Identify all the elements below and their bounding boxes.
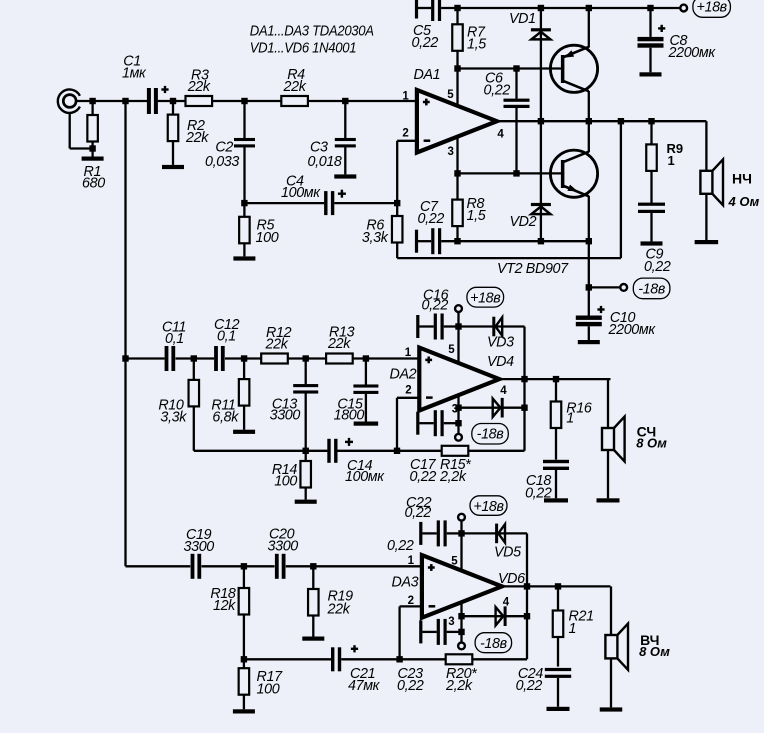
terminal +18v DA2	[457, 312, 459, 326]
svg-text:0,1: 0,1	[165, 331, 184, 347]
wire: VT1 emitter down	[588, 91, 590, 121]
capacitor C22	[419, 522, 422, 545]
node: rail junction C8	[647, 5, 653, 11]
resistor R18	[243, 566, 245, 588]
wire: R18 node to C21	[244, 658, 331, 660]
wire: VT2 emitter down	[588, 196, 590, 241]
wire: DA2 pin3 vertical	[457, 393, 459, 423]
svg-text:1: 1	[405, 347, 412, 359]
node: junction output/feedback DA3	[524, 583, 530, 589]
capacitor C3	[344, 101, 346, 138]
svg-text:0,018: 0,018	[308, 154, 342, 170]
svg-text:12k: 12k	[213, 598, 236, 614]
resistor R4	[281, 96, 308, 106]
node: junction R21 top	[555, 583, 561, 589]
diode VD5	[495, 524, 498, 544]
svg-text:VT2 BD907: VT2 BD907	[497, 261, 569, 277]
wire: stage3 input	[126, 565, 191, 567]
svg-text:VD3: VD3	[487, 335, 514, 351]
svg-text:0,033: 0,033	[205, 154, 239, 170]
op-amp DA1	[417, 90, 497, 153]
resistor R20	[446, 654, 473, 664]
ground: under speaker НЧ	[695, 240, 719, 244]
wire: DA2 pin2 stub	[397, 397, 421, 399]
node: junction pin5/R7/base	[454, 65, 460, 71]
resistor R14	[305, 451, 307, 461]
wire: VT2 collector up	[588, 121, 590, 152]
capacitor C8 2200мк	[649, 8, 651, 37]
node: junction R11 top	[241, 355, 247, 361]
capacitor C6	[515, 69, 517, 99]
svg-text:1800: 1800	[334, 408, 365, 424]
svg-text:VD1...VD6 1N4001: VD1...VD6 1N4001	[250, 40, 357, 56]
terminal -18v DA3	[460, 632, 462, 643]
node: junction C6 top	[513, 65, 519, 71]
svg-text:0,22: 0,22	[525, 486, 552, 502]
svg-text:0,22: 0,22	[516, 678, 543, 694]
resistor R15	[442, 446, 469, 456]
ground: under R5	[233, 256, 255, 260]
capacitor C2	[243, 101, 245, 138]
svg-text:+18в: +18в	[696, 0, 727, 16]
ground: under R11	[233, 430, 255, 434]
oval label -18в DA3	[475, 633, 512, 653]
wire: +18V top rail	[441, 7, 680, 9]
node: junction R18 top	[241, 563, 247, 569]
svg-text:VD5: VD5	[494, 545, 521, 561]
svg-text:1: 1	[566, 411, 574, 427]
resistor R12	[261, 354, 288, 364]
svg-text:DA2: DA2	[390, 367, 417, 383]
svg-text:-18в: -18в	[480, 636, 508, 652]
svg-text:0,1: 0,1	[217, 329, 236, 345]
node: junction VD4/feedback	[521, 405, 527, 411]
ground: under R14	[295, 500, 317, 504]
node: junction C15 top	[363, 355, 369, 361]
node: junction R1 bottom	[89, 145, 95, 151]
node: junction VD column/output	[538, 118, 544, 124]
wire: C20 to DA3	[286, 565, 423, 567]
svg-text:100мк: 100мк	[281, 185, 321, 201]
node: rail junction R7	[454, 5, 460, 11]
node: junction R16 top	[553, 376, 559, 382]
node: junction C17/pin3	[455, 420, 461, 426]
svg-text:5: 5	[448, 344, 455, 356]
capacitor C23	[419, 620, 422, 643]
resistor R1	[91, 101, 93, 115]
svg-text:-18в: -18в	[477, 427, 505, 443]
wire: DA2 pin5 vertical	[457, 327, 459, 366]
svg-text:-18в: -18в	[638, 281, 666, 297]
wire: DA1 pin2 stub	[397, 140, 418, 142]
svg-text:VD6: VD6	[498, 571, 525, 587]
resistor R10	[193, 359, 195, 380]
svg-text:4: 4	[497, 128, 504, 140]
oval label +18в DA3	[470, 496, 507, 516]
transistor VT1	[550, 45, 597, 92]
ground: under R2	[162, 165, 184, 169]
wire: node to R20	[400, 658, 446, 660]
node: junction -18	[586, 284, 592, 290]
capacitor C4 100мк	[324, 191, 327, 215]
node: junction VD2 bottom	[538, 238, 544, 244]
resistor R19	[312, 566, 314, 589]
svg-text:0,22: 0,22	[387, 538, 414, 554]
ground: under C9	[641, 241, 663, 245]
ground: under R19	[302, 637, 324, 641]
wire: C2 bottom to C4	[244, 202, 324, 204]
svg-text:2,2k: 2,2k	[445, 678, 473, 694]
svg-text:C3: C3	[310, 139, 328, 155]
svg-text:0,22: 0,22	[418, 211, 445, 227]
speaker НЧ	[700, 171, 712, 194]
wire: after C1 to DA1 pin1	[158, 100, 418, 102]
svg-text:DA1...DA3 TDA2030A: DA1...DA3 TDA2030A	[250, 24, 374, 40]
capacitor C16	[416, 315, 419, 338]
node: junction at R1 top	[89, 98, 95, 104]
wire: to speaker НЧ	[705, 121, 707, 171]
resistor R9	[650, 121, 652, 144]
ground: under C3	[334, 174, 356, 178]
capacitor C15	[365, 359, 367, 385]
node: junction pin2/C14/R15	[394, 448, 400, 454]
wire: DA3 pin5 vertical	[460, 533, 462, 573]
diode VD6	[504, 606, 507, 626]
wire: R10 bottom to C14	[194, 450, 306, 452]
wire: VT1 base wire	[458, 67, 562, 69]
svg-text:5: 5	[447, 89, 454, 101]
svg-text:1мк: 1мк	[122, 66, 147, 82]
svg-text:0,22: 0,22	[422, 298, 449, 314]
wire: speaker СЧ bottom	[607, 450, 609, 498]
ground: under C15	[354, 422, 379, 426]
terminal +18v DA3	[460, 521, 462, 534]
capacitor C1	[147, 88, 151, 114]
svg-text:НЧ: НЧ	[732, 171, 752, 187]
node: junction at R2 top	[170, 98, 176, 104]
svg-text:22k: 22k	[185, 130, 209, 146]
node: junction R8 bottom	[454, 238, 460, 244]
node: junction C2 bottom	[241, 200, 247, 206]
wire: stage2 feedback vertical	[523, 327, 525, 451]
svg-text:3300: 3300	[268, 539, 299, 555]
svg-text:22k: 22k	[327, 602, 351, 618]
node: rail junction VD1	[538, 5, 544, 11]
svg-text:2: 2	[402, 128, 408, 140]
node: junction R10 top	[191, 355, 197, 361]
capacitor C13	[305, 359, 307, 385]
svg-text:+18в: +18в	[473, 499, 504, 515]
wire: pin5 vertical	[456, 69, 458, 109]
capacitor C20	[275, 554, 279, 579]
svg-text:6,8k: 6,8k	[212, 410, 239, 426]
node: junction to lower stages	[122, 98, 128, 104]
wire: DA3 output	[502, 585, 611, 587]
wire: DA3 pin3 vertical	[460, 601, 462, 632]
svg-text:2,2k: 2,2k	[439, 469, 467, 485]
wire: long vertical to stage2/3	[124, 101, 126, 566]
oval label -18в DA2	[472, 424, 509, 445]
svg-text:5: 5	[451, 556, 458, 568]
diode VD4	[501, 398, 504, 418]
capacitor C9	[638, 203, 665, 206]
wire: C4 to R6 node	[334, 202, 397, 204]
wire: DA3 pin3 to VD6	[462, 615, 528, 617]
svg-text:VD4: VD4	[487, 354, 514, 370]
svg-text:1,5: 1,5	[467, 37, 486, 53]
svg-text:100: 100	[257, 682, 280, 698]
svg-text:4: 4	[500, 385, 507, 397]
svg-text:1,5: 1,5	[467, 208, 486, 224]
svg-text:1: 1	[408, 555, 415, 567]
wire: pin3 vertical	[456, 135, 458, 173]
svg-text:3,3k: 3,3k	[160, 410, 187, 426]
svg-text:0,22: 0,22	[484, 83, 511, 99]
svg-text:3: 3	[447, 146, 453, 158]
svg-text:3300: 3300	[270, 408, 301, 424]
ground: under C24	[547, 707, 570, 711]
svg-text:22k: 22k	[327, 336, 351, 352]
svg-text:2: 2	[408, 595, 414, 607]
node: junction C13/R14/C14	[303, 448, 309, 454]
wire: C19 to C20	[202, 565, 275, 567]
node: junction feedback/output	[618, 118, 624, 124]
resistor R21	[557, 586, 559, 610]
diode VD1	[531, 28, 551, 31]
svg-text:22k: 22k	[187, 79, 211, 95]
resistor R16	[555, 379, 557, 401]
resistor R2	[172, 101, 174, 115]
wire: R12 to R13	[288, 357, 326, 359]
wire: pin2 down to R6	[396, 141, 398, 216]
wire: VT1 collector up	[588, 8, 590, 48]
speaker СЧ	[602, 428, 614, 450]
ground: under speaker ВЧ	[600, 707, 623, 711]
capacitor C11	[165, 346, 169, 371]
svg-text:0,22: 0,22	[405, 505, 432, 521]
ground: under R17	[233, 709, 255, 713]
wire: input main horizontal	[76, 100, 147, 102]
wire: jack shield down and right	[69, 112, 71, 148]
ground: under C10	[578, 340, 600, 344]
wire: C11 to C12	[176, 357, 215, 359]
wire: DA1 output rail	[497, 120, 707, 122]
wire: R15 to feedback vertical	[468, 450, 524, 452]
node: junction output/feedback DA2	[521, 376, 527, 382]
node: rail junction VT1	[586, 5, 592, 11]
diode VD3	[492, 317, 495, 337]
node: junction R9/output	[648, 118, 654, 124]
svg-text:3,3k: 3,3k	[362, 230, 389, 246]
svg-text:47мк: 47мк	[348, 678, 381, 694]
svg-text:2: 2	[405, 385, 411, 397]
capacitor C24	[545, 668, 571, 671]
node: junction pin3/VD6	[458, 613, 464, 619]
node: junction R18/R17/C21	[241, 656, 247, 662]
node: junction pin2/C21/R20	[396, 656, 402, 662]
wire: bottom wire to VT2 emitter	[458, 240, 589, 242]
wire: C12 to R12	[225, 357, 261, 359]
transistor VT2	[550, 150, 597, 197]
wire: VT2 base wire	[458, 172, 562, 174]
svg-text:100: 100	[256, 230, 279, 246]
svg-text:3300: 3300	[184, 539, 215, 555]
capacitor C21 47мк	[331, 647, 334, 671]
node: junction C22/pin5	[458, 530, 464, 536]
node: junction VT column/output	[586, 118, 592, 124]
capacitor C19	[191, 554, 195, 579]
capacitor C5	[415, 0, 418, 19]
node: junction C6 bottom	[513, 170, 519, 176]
svg-text:4 Ом: 4 Ом	[728, 194, 760, 209]
ground: under speaker СЧ	[597, 498, 620, 502]
node: junction stage2 tap	[122, 355, 128, 361]
wire: junction to C14	[306, 450, 328, 452]
ground: under R1	[82, 157, 104, 161]
svg-text:0,22: 0,22	[410, 469, 437, 485]
oval label -18в stage1	[633, 278, 670, 299]
wire: speaker НЧ bottom	[705, 194, 707, 240]
resistor R7	[456, 8, 458, 24]
resistor R6	[392, 216, 403, 243]
capacitor C12	[214, 346, 218, 371]
svg-text:1: 1	[569, 621, 577, 637]
diode VD2	[531, 203, 551, 206]
speaker ВЧ	[605, 635, 617, 658]
op-amp DA3	[422, 555, 502, 618]
wire: C14 to pin2 node	[338, 450, 398, 452]
op-amp DA2	[419, 348, 499, 411]
svg-text:680: 680	[82, 176, 105, 192]
wire: C22 junction to VD5	[462, 532, 528, 534]
wire: feedback bottom horizontal	[397, 257, 621, 259]
svg-text:VD1: VD1	[509, 11, 536, 27]
svg-text:VD2: VD2	[510, 214, 537, 230]
wire: to speaker ВЧ	[610, 586, 612, 635]
svg-text:0,22: 0,22	[644, 259, 671, 275]
wire: R13 to DA2	[353, 357, 421, 359]
wire: speaker ВЧ bottom	[610, 658, 612, 707]
svg-text:C2: C2	[215, 139, 233, 155]
svg-text:22k: 22k	[265, 337, 289, 353]
wire: feedback vertical up to output rail	[620, 121, 622, 258]
terminal -18v stage1	[620, 284, 627, 291]
oval label +18в	[693, 0, 731, 17]
node: junction R19 top	[310, 563, 316, 569]
svg-text:0,22: 0,22	[412, 35, 439, 51]
wire: VD1-VD2 vertical	[540, 8, 542, 241]
input jack XS1	[58, 90, 80, 113]
wire: stage3 feedback vertical	[526, 533, 528, 659]
node: junction C23/pin3	[458, 629, 464, 635]
svg-text:3: 3	[448, 616, 454, 628]
node: junction VT2 emitter bottom	[586, 238, 592, 244]
oval label +18в DA2	[467, 287, 504, 307]
node: junction C13 top	[303, 355, 309, 361]
capacitor C14 100мк	[327, 439, 330, 463]
svg-text:2200мк: 2200мк	[608, 322, 657, 338]
wire: VT2 emitter to -18	[588, 241, 590, 287]
resistor R3	[186, 96, 213, 106]
svg-text:+18в: +18в	[470, 291, 501, 307]
svg-text:2200мк: 2200мк	[668, 45, 717, 61]
svg-text:22k: 22k	[283, 79, 307, 95]
node: junction R6 top / C4	[394, 200, 400, 206]
ground: under C18	[544, 498, 568, 502]
wire: C21 to pin2 node	[341, 658, 399, 660]
wire: stage2 input	[126, 357, 165, 359]
svg-text:DA3: DA3	[392, 575, 419, 591]
node: junction C3 top	[342, 98, 348, 104]
svg-text:8 Ом: 8 Ом	[636, 436, 667, 451]
svg-text:DA1: DA1	[414, 67, 441, 83]
node: junction C2 top	[241, 98, 247, 104]
node: junction pin3 wire left	[454, 170, 460, 176]
resistor R8	[456, 173, 458, 199]
resistor R5	[243, 203, 245, 217]
terminal +18v top right	[680, 5, 687, 12]
node: junction pin3/VD4	[455, 405, 461, 411]
svg-text:0,22: 0,22	[397, 678, 424, 694]
capacitor C10 2200мк	[588, 287, 590, 315]
node: junction VD6/feedback	[524, 613, 530, 619]
capacitor C17	[416, 412, 419, 435]
ground: under C8	[640, 72, 662, 76]
svg-text:1: 1	[402, 91, 409, 103]
node: junction C16/pin5	[455, 323, 461, 329]
terminal -18v DA2	[457, 423, 459, 433]
capacitor C18	[543, 460, 569, 463]
svg-text:8 Ом: 8 Ом	[639, 644, 670, 659]
wire: to -18 terminal	[589, 286, 621, 288]
wire: R20 to feedback vertical	[472, 658, 527, 660]
wire: C16 junction to VD3	[459, 325, 525, 327]
wire: node to R15	[397, 450, 442, 452]
resistor R11	[243, 359, 245, 380]
capacitor C7	[415, 230, 418, 253]
resistor R13	[326, 354, 353, 364]
wire: DA2 output	[499, 378, 610, 380]
wire: DA3 pin2 stub	[400, 605, 423, 607]
svg-text:1: 1	[668, 153, 675, 168]
svg-text:100: 100	[274, 474, 297, 490]
wire: DA2 pin3 to VD4	[459, 407, 525, 409]
resistor R17	[243, 659, 245, 668]
svg-text:100мк: 100мк	[345, 469, 385, 485]
wire: to speaker СЧ	[607, 379, 609, 428]
